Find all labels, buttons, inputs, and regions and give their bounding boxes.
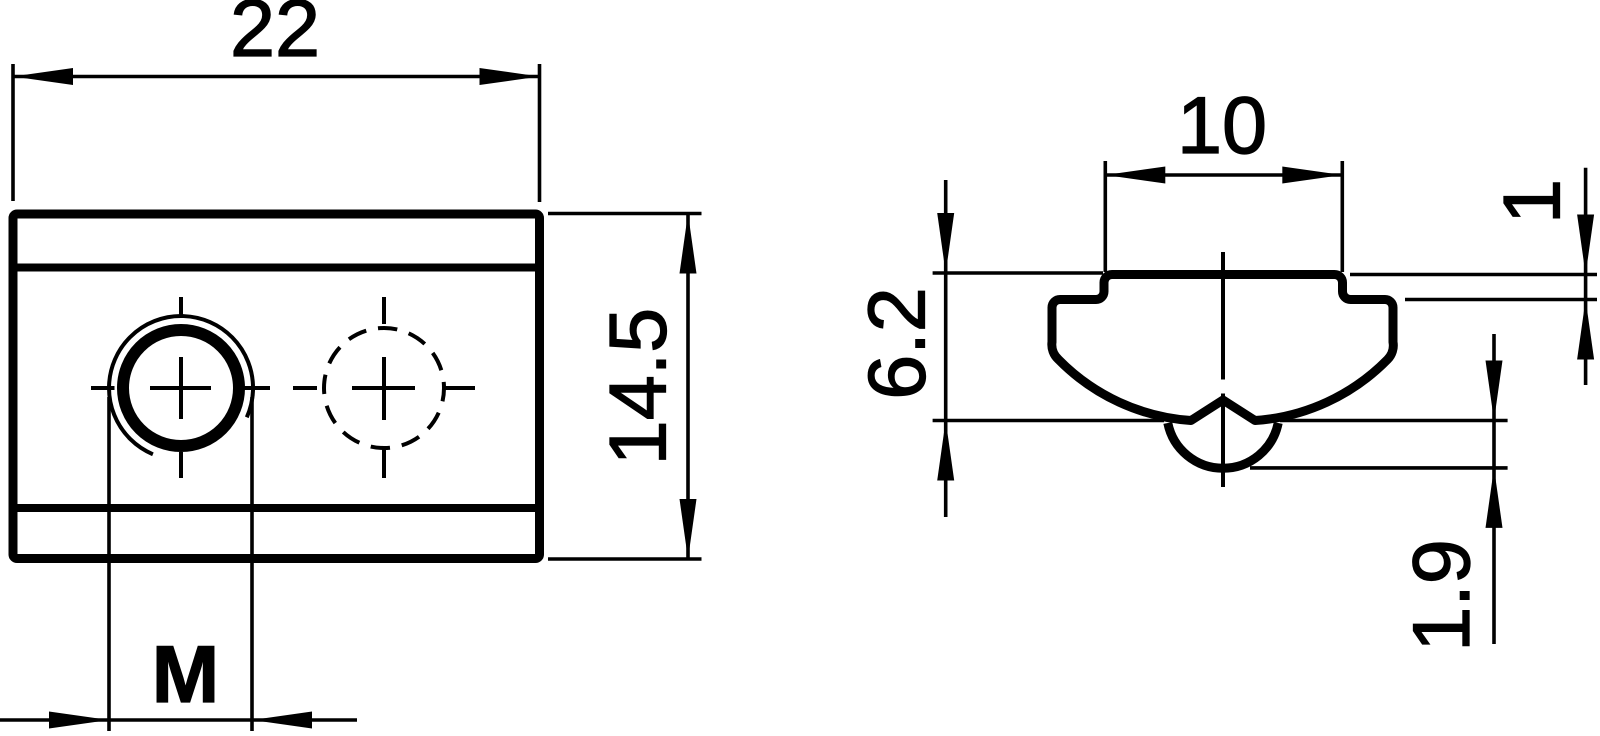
dimension M left extension line [107, 397, 111, 731]
dimension 1.9 top arrowhead [1486, 361, 1503, 421]
profile centerline upper segment [1221, 252, 1225, 380]
top flange edge line [13, 264, 540, 272]
dimension M left arrowhead [49, 712, 109, 729]
dimension 14.5 bottom extension line [548, 557, 702, 561]
dimension 10 right extension line [1341, 161, 1345, 272]
svg-text:14.5: 14.5 [593, 308, 683, 466]
svg-text:6.2: 6.2 [852, 287, 942, 400]
dimension 1.9 bottom arrowhead [1486, 468, 1503, 528]
dimension 1.9 bottom extension line [1250, 466, 1508, 470]
bottom flange edge line [13, 504, 540, 512]
thread crest arc [109, 316, 253, 454]
svg-text:1.9: 1.9 [1397, 539, 1487, 652]
dimension 14.5 top arrowhead [680, 214, 697, 274]
threaded hole core circle [123, 330, 239, 446]
svg-text:M: M [152, 630, 219, 720]
dimension 22 left arrowhead [13, 68, 73, 85]
centerline cross of hidden hole [293, 297, 475, 478]
dimension M right arrowhead [252, 712, 312, 729]
dimension 22 right arrowhead [480, 68, 540, 85]
dimension 6.2 top extension line [933, 271, 1103, 275]
dimension 1 top arrowhead [1577, 215, 1594, 275]
dimension 1 top extension line [1350, 273, 1597, 277]
dimension 1 line [1584, 168, 1588, 385]
svg-text:22: 22 [230, 0, 320, 74]
dimension 10 line [1105, 173, 1342, 177]
dimension 6.2 line [944, 180, 948, 517]
profile centerline lower segment [1221, 394, 1225, 488]
dimension 1.9 line [1492, 334, 1496, 644]
svg-text:1: 1 [1487, 179, 1577, 224]
dimension 22 line [13, 75, 540, 79]
profile body outline (section view) [1052, 275, 1393, 421]
dimension 1 bottom extension line [1405, 298, 1597, 302]
dimension 14.5 line [686, 214, 690, 560]
dimension 6.2 bottom extension line [933, 419, 1164, 423]
spring ball arc [1168, 423, 1278, 468]
svg-text:10: 10 [1177, 81, 1267, 171]
dimension 22 left extension line [11, 64, 15, 201]
dimension 1 bottom arrowhead [1577, 300, 1594, 360]
dimension 14.5 bottom arrowhead [680, 499, 697, 559]
dimension 22 right extension line [538, 64, 542, 202]
dimension M right extension line [250, 397, 254, 731]
dimension 14.5 top extension line [548, 212, 702, 216]
dimension 10 left arrowhead [1105, 167, 1165, 184]
centerline cross of threaded hole [91, 297, 270, 478]
nut body outline (top view) [13, 214, 540, 559]
dimension 1.9 top extension line [1280, 419, 1508, 423]
dimension 10 right arrowhead [1282, 167, 1342, 184]
dimension M line [0, 718, 357, 722]
dimension 10 left extension line [1104, 161, 1108, 272]
dimension 6.2 top arrowhead [937, 213, 954, 273]
dimension 6.2 bottom arrowhead [937, 421, 954, 481]
hidden hole dashed circle [324, 328, 444, 448]
